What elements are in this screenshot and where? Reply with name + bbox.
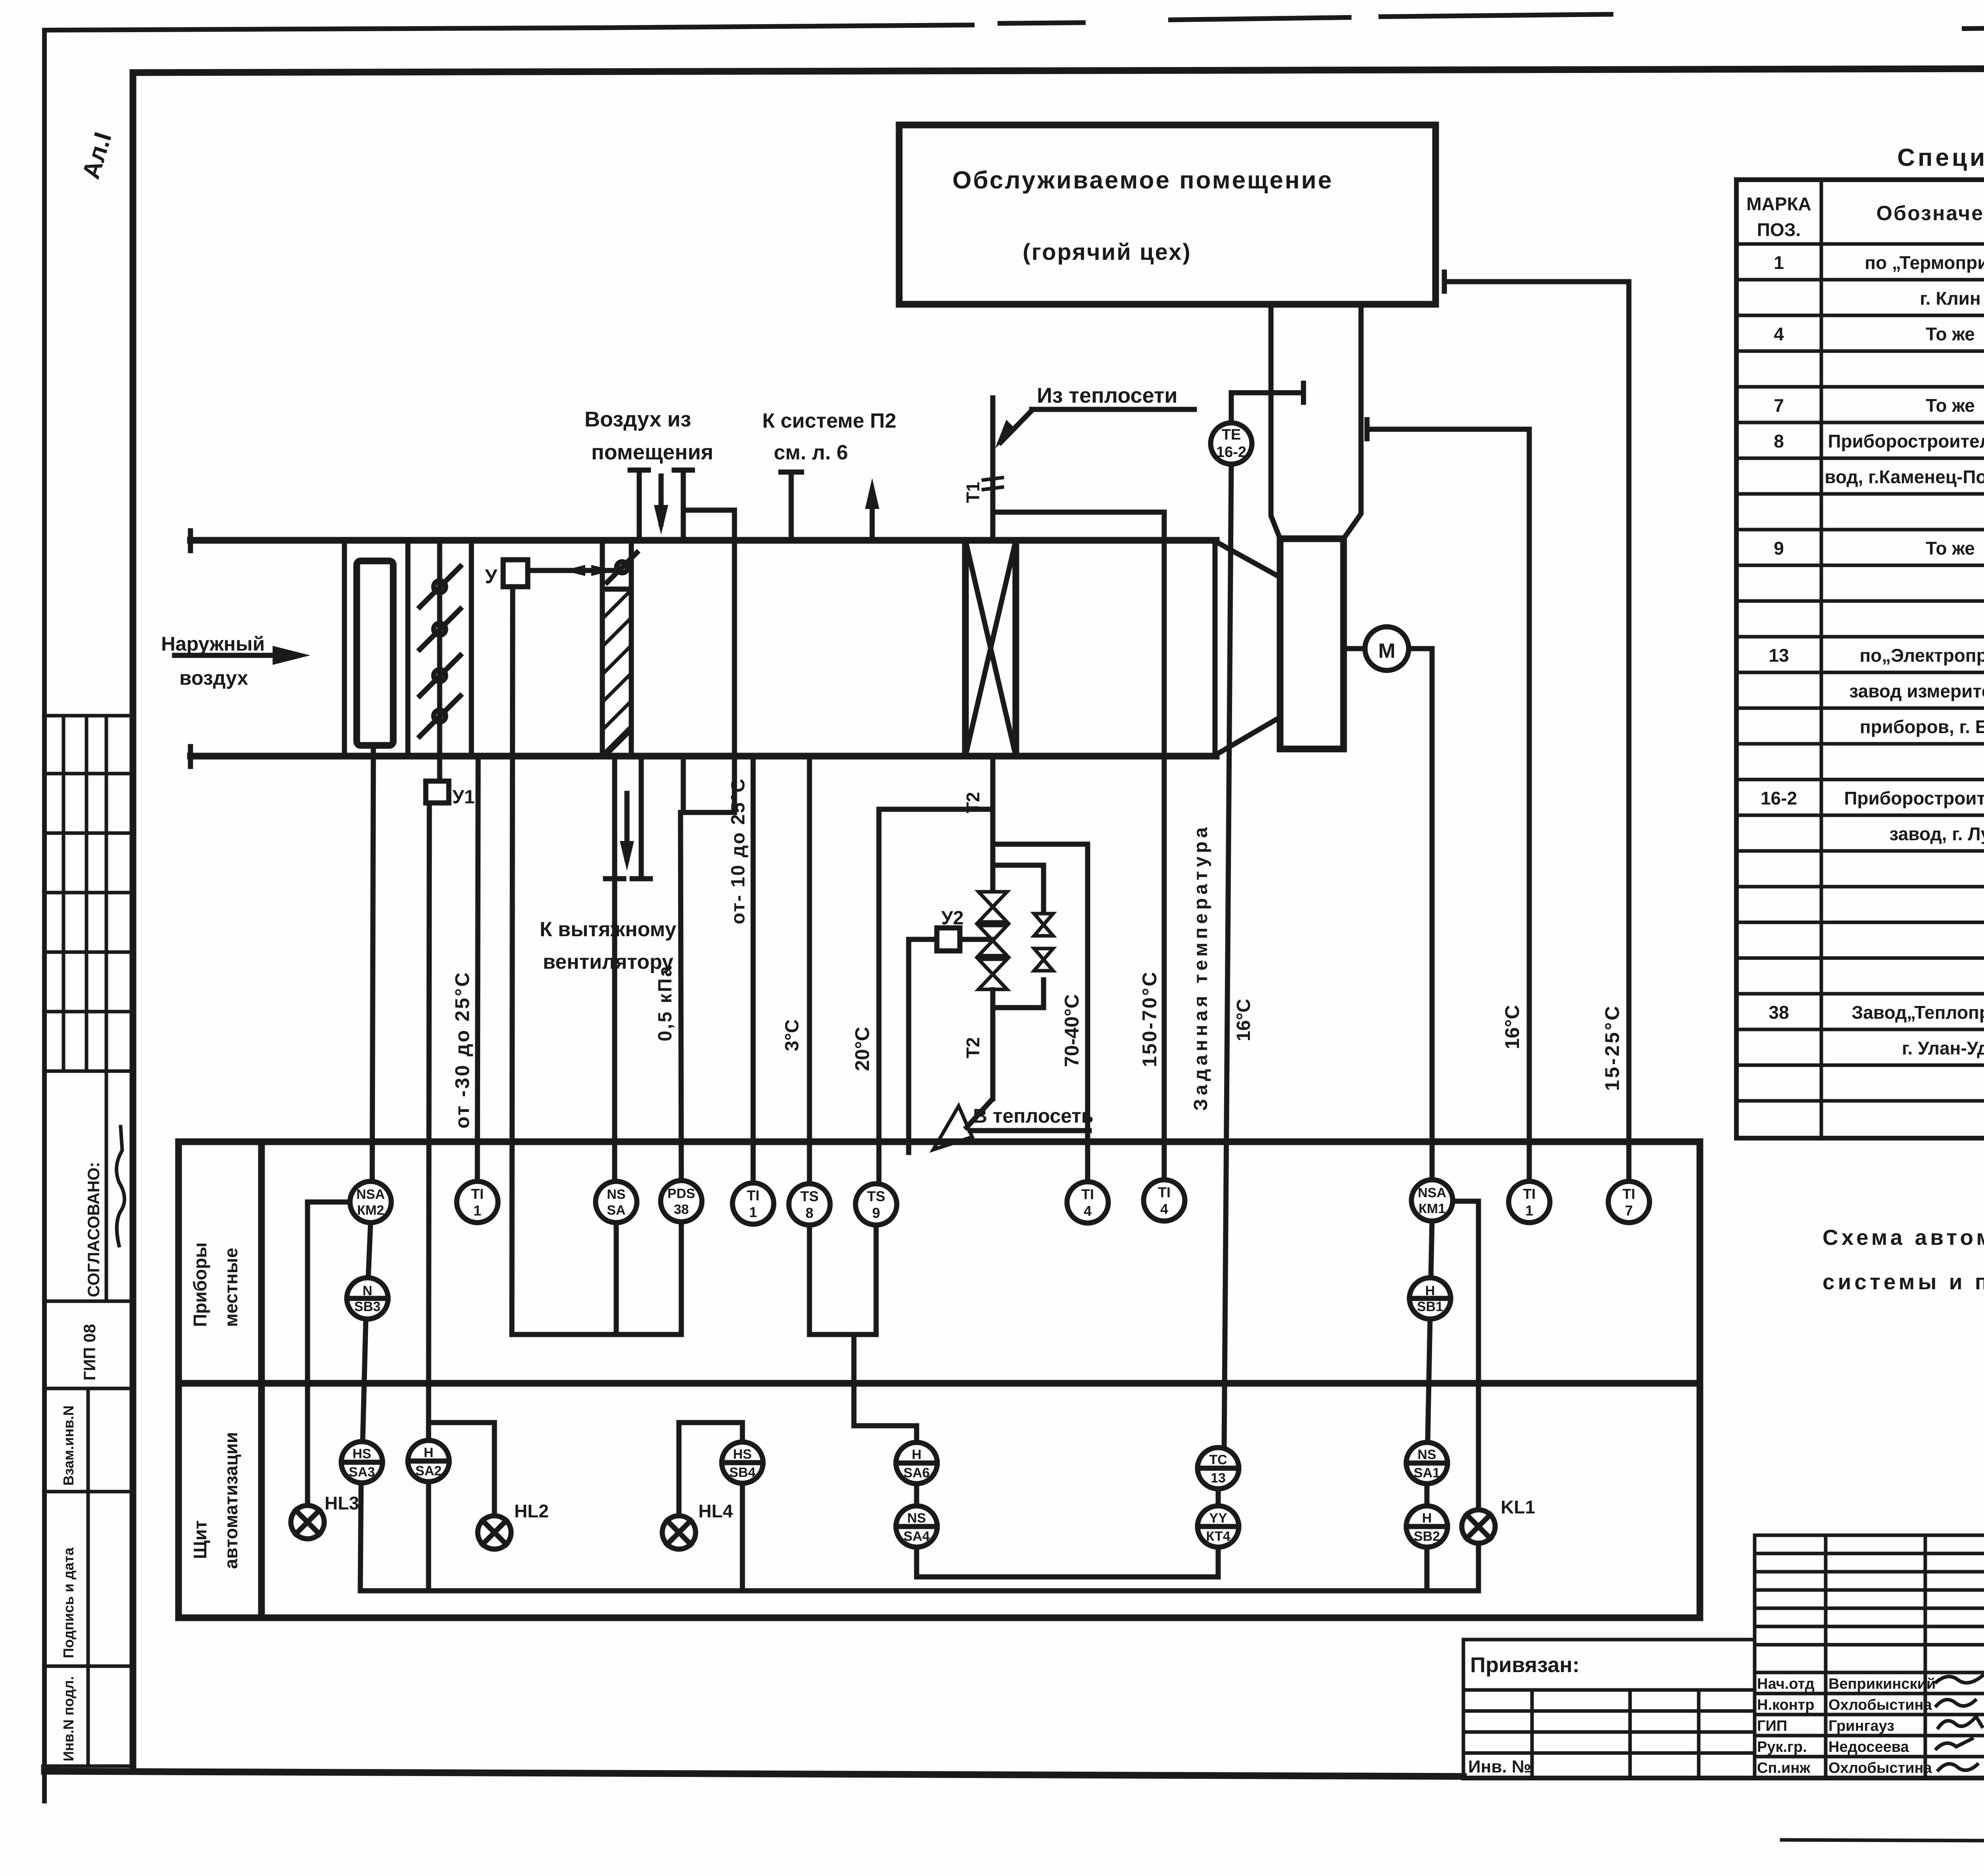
exhaust inlet arrow xyxy=(659,476,664,524)
svg-text:КТ4: КТ4 xyxy=(1206,1529,1230,1544)
svg-text:7: 7 xyxy=(1625,1202,1633,1219)
svg-text:0,5 кПа: 0,5 кПа xyxy=(655,965,676,1041)
heat recovery section boundaries xyxy=(600,540,605,756)
control valve 2 xyxy=(979,926,1007,956)
svg-text:ТЕ: ТЕ xyxy=(1222,426,1241,443)
room thermometer line 15-25C xyxy=(1444,282,1629,1182)
svg-text:SA4: SA4 xyxy=(904,1529,930,1544)
svg-text:К вытяжному: К вытяжному xyxy=(540,918,677,941)
wire TS8 TS9 chain xyxy=(809,1225,876,1335)
instrument NS/SA xyxy=(596,1181,637,1223)
svg-text:38: 38 xyxy=(1769,1002,1789,1023)
supply air thermometer line 16C xyxy=(1367,429,1529,1182)
svg-text:HS: HS xyxy=(352,1446,371,1461)
instrument TS/8 xyxy=(789,1184,830,1225)
svg-text:Обозначение: Обозначение xyxy=(1876,202,1984,225)
duct end wall xyxy=(1213,540,1218,756)
fan discharge transition left xyxy=(1271,304,1280,539)
svg-text:Приборостроительный за-: Приборостроительный за- xyxy=(1828,431,1984,451)
svg-text:TI: TI xyxy=(747,1187,759,1204)
svg-text:YY: YY xyxy=(1209,1511,1227,1526)
svg-text:TS: TS xyxy=(867,1188,885,1204)
control valve 1 xyxy=(979,892,1007,922)
lamp HL4 xyxy=(662,1516,696,1549)
svg-text:HL4: HL4 xyxy=(698,1501,733,1521)
valve loop left branch to TS9 xyxy=(879,809,993,1183)
svg-text:ПОЗ.: ПОЗ. xyxy=(1757,219,1801,240)
svg-text:К системе П2: К системе П2 xyxy=(762,409,896,432)
svg-text:вентилятору: вентилятору xyxy=(543,950,673,974)
svg-text:завод, г. Луцк: завод, г. Луцк xyxy=(1889,824,1984,844)
svg-text:1: 1 xyxy=(749,1204,757,1220)
instrument NSA/KM1 xyxy=(1411,1180,1453,1221)
arrow to pipe xyxy=(1001,411,1032,442)
svg-text:воздух: воздух xyxy=(179,667,248,689)
TE signal line down xyxy=(1224,464,1231,1448)
inner frame left xyxy=(130,73,136,1771)
wire N/SB3 to HS/SA3 xyxy=(363,1319,366,1442)
signatures squiggles xyxy=(1936,1672,1984,1770)
fan inlet cone bottom xyxy=(1216,717,1280,755)
svg-text:г. Клин: г. Клин xyxy=(1920,288,1980,309)
svg-text:150-70°C: 150-70°C xyxy=(1138,970,1161,1067)
svg-text:МАРКА: МАРКА xyxy=(1746,194,1811,214)
svg-text:Наружный: Наружный xyxy=(161,633,265,655)
spec table grid xyxy=(1736,180,1984,1138)
bypass valve 1 xyxy=(1034,914,1053,936)
panel instrument NS/SA1 xyxy=(1406,1442,1448,1484)
svg-text:У1: У1 xyxy=(452,787,475,808)
svg-text:КМ1: КМ1 xyxy=(1419,1201,1446,1216)
svg-text:SA: SA xyxy=(607,1203,625,1218)
lamp HL2 xyxy=(478,1516,511,1549)
svg-text:16°C: 16°C xyxy=(1501,1005,1523,1049)
svg-text:г. Улан-Удэ: г. Улан-Удэ xyxy=(1902,1038,1984,1058)
wire NSA/KM1 chain xyxy=(1431,1219,1432,1279)
П2 branch stub xyxy=(789,472,794,540)
left strip signature xyxy=(117,1127,125,1246)
filter signal drop xyxy=(372,745,373,1182)
filter cassette xyxy=(357,561,393,745)
damper drop to У1 xyxy=(437,756,442,781)
fan inlet cone top xyxy=(1216,542,1280,577)
svg-text:Воздух из: Воздух из xyxy=(584,407,691,431)
svg-text:1: 1 xyxy=(1525,1202,1533,1219)
TS8 line xyxy=(807,756,812,1185)
svg-text:Щит: Щит xyxy=(190,1520,210,1559)
outside air arrow xyxy=(175,653,286,658)
instrument PDS/38 xyxy=(661,1181,702,1222)
svg-text:Рук.гр.: Рук.гр. xyxy=(1757,1739,1807,1755)
wire У1 to H/SA2 xyxy=(429,803,429,1440)
В теплосеть arrow xyxy=(967,1101,990,1127)
svg-text:13: 13 xyxy=(1769,645,1789,666)
svg-text:У2: У2 xyxy=(941,908,964,929)
svg-text:8: 8 xyxy=(806,1205,813,1221)
branch to TI4 return xyxy=(993,844,1088,1182)
wire NSA/KM2 to N/SB3 xyxy=(368,1222,371,1278)
svg-text:Приборы: Приборы xyxy=(190,1242,210,1327)
svg-text:То же: То же xyxy=(1926,324,1975,344)
svg-text:13: 13 xyxy=(1211,1471,1226,1486)
svg-text:Ал.I: Ал.I xyxy=(77,129,117,182)
wire TS9 drop xyxy=(874,1225,879,1335)
svg-text:NSA: NSA xyxy=(1418,1185,1446,1200)
bypass valve 2 xyxy=(1034,949,1053,971)
wire H/SA6 to NS/SA4 xyxy=(914,1484,919,1507)
svg-text:Инв. №: Инв. № xyxy=(1468,1757,1531,1776)
svg-text:СОГЛАСОВАНО:: СОГЛАСОВАНО: xyxy=(84,1162,103,1297)
svg-text:Схема автоматизации составлен: Схема автоматизации составлена для одной… xyxy=(1823,1225,1984,1250)
svg-text:Из теплосети: Из теплосети xyxy=(1037,384,1178,407)
motor wires xyxy=(1344,646,1365,651)
svg-text:SB1: SB1 xyxy=(1417,1299,1443,1314)
svg-text:по „Термоприбор".: по „Термоприбор". xyxy=(1865,252,1984,273)
svg-text:Охлобыстина: Охлобыстина xyxy=(1828,1697,1932,1713)
svg-text:В теплосеть: В теплосеть xyxy=(973,1105,1094,1127)
svg-text:Нач.отд: Нач.отд xyxy=(1757,1676,1815,1692)
svg-text:8: 8 xyxy=(1774,431,1784,451)
svg-text:38: 38 xyxy=(674,1202,689,1217)
У signal line down xyxy=(512,587,513,1335)
TE room probe line xyxy=(1231,393,1303,423)
svg-text:7: 7 xyxy=(1774,395,1784,416)
instrument H/SB1 xyxy=(1409,1278,1451,1319)
heat recovery hatched block xyxy=(602,590,631,755)
actuator У box xyxy=(503,560,528,587)
actuator У1 box xyxy=(426,781,449,803)
svg-text:Т1: Т1 xyxy=(963,482,983,503)
svg-text:20°C: 20°C xyxy=(851,1027,873,1071)
svg-text:М: М xyxy=(1378,639,1395,662)
wire HS/SA3 to bus xyxy=(360,1483,361,1591)
svg-text:TI: TI xyxy=(1523,1186,1536,1202)
svg-text:Приборостроительный: Приборостроительный xyxy=(1844,788,1984,808)
wire NS/SA4 loop to YY/KT4 xyxy=(917,1546,1218,1577)
svg-text:1: 1 xyxy=(473,1202,481,1219)
svg-text:Завод„Теплоприбор",: Завод„Теплоприбор", xyxy=(1852,1002,1984,1023)
wire TC13 to YY/KT4 xyxy=(1216,1488,1221,1507)
supply duct bottom line xyxy=(190,753,1216,760)
frame bottom left segment xyxy=(44,1771,1463,1776)
actuator У2 box xyxy=(937,928,960,951)
svg-text:16°C: 16°C xyxy=(1233,999,1254,1041)
svg-text:по„Электроприбор": по„Электроприбор" xyxy=(1860,645,1984,666)
room box Обслуживаемое помещение xyxy=(899,125,1436,304)
motor M circle xyxy=(1365,627,1409,670)
svg-text:Н: Н xyxy=(1425,1283,1435,1298)
outer left border xyxy=(42,30,47,1801)
paper edge line xyxy=(1782,1840,1984,1843)
svg-text:4: 4 xyxy=(1160,1201,1168,1217)
svg-text:(горячий цех): (горячий цех) xyxy=(1023,239,1191,265)
left strip bottom xyxy=(43,1765,133,1768)
svg-text:автоматизации: автоматизации xyxy=(221,1432,241,1569)
svg-text:ТС: ТС xyxy=(1209,1452,1227,1467)
exhaust outlet stubs xyxy=(612,756,617,1180)
svg-text:SB3: SB3 xyxy=(354,1299,381,1314)
instrument TI/1 after fan xyxy=(1509,1181,1550,1223)
svg-text:9: 9 xyxy=(872,1205,880,1221)
svg-text:Сп.инж: Сп.инж xyxy=(1757,1760,1811,1776)
instrument TS/9 xyxy=(856,1184,897,1225)
left strip cells xyxy=(44,716,133,1766)
TABLE xyxy=(1736,144,1984,1294)
svg-text:TI: TI xyxy=(1081,1186,1094,1202)
svg-text:N: N xyxy=(363,1283,373,1298)
recirculation damper blade xyxy=(607,553,637,582)
svg-text:от -30 до 25°C: от -30 до 25°C xyxy=(451,971,473,1129)
supply duct top line xyxy=(190,537,1216,544)
svg-text:NSA: NSA xyxy=(356,1187,385,1202)
outer top border line xyxy=(44,25,972,30)
svg-text:ГИП: ГИП xyxy=(1757,1718,1787,1734)
inner frame top xyxy=(133,67,1984,73)
instrument TI/1 supply xyxy=(732,1183,774,1224)
svg-text:HS: HS xyxy=(733,1447,752,1462)
svg-text:вод, г.Каменец-Подольский: вод, г.Каменец-Подольский xyxy=(1824,467,1984,487)
svg-text:4: 4 xyxy=(1774,324,1784,344)
svg-text:4: 4 xyxy=(1084,1203,1092,1219)
svg-text:HL2: HL2 xyxy=(514,1501,549,1521)
svg-text:Инв.N подл.: Инв.N подл. xyxy=(60,1676,77,1761)
svg-text:Обслуживаемое помещение: Обслуживаемое помещение xyxy=(952,167,1333,194)
svg-text:Н: Н xyxy=(912,1447,922,1462)
svg-text:Н: Н xyxy=(1422,1511,1432,1526)
Привязан box xyxy=(1463,1640,1755,1778)
PDS38 line xyxy=(681,812,681,1181)
panel label column divider xyxy=(258,1142,265,1618)
svg-text:SB2: SB2 xyxy=(1414,1529,1440,1544)
svg-text:см. л. 6: см. л. 6 xyxy=(774,441,848,464)
svg-text:Н: Н xyxy=(424,1445,434,1460)
spec table row texts xyxy=(1761,252,1984,1130)
exhaust casing through unit xyxy=(683,510,734,812)
wire branch to HL2 xyxy=(429,1423,494,1516)
wire H/SA2 to bus xyxy=(426,1482,431,1591)
wire HS/SB4 to HL4 xyxy=(679,1423,742,1516)
panel instrument H/SA2 xyxy=(408,1440,449,1482)
title block signature grid xyxy=(1755,1535,1984,1778)
svg-text:70-40°C: 70-40°C xyxy=(1061,994,1083,1067)
heater coil xyxy=(965,540,1016,756)
svg-text:Спецификация элементов систе: Спецификация элементов системы П1, xyxy=(1897,144,1984,171)
svg-text:Заданная температура: Заданная температура xyxy=(1190,824,1211,1111)
SCHEMA xyxy=(161,125,1629,1448)
svg-text:Грингауз: Грингауз xyxy=(1828,1718,1894,1734)
panel instrument HS/SB4 xyxy=(722,1442,763,1483)
svg-text:Веприкинский: Веприкинский xyxy=(1828,1676,1936,1692)
panel instrument TC/13 xyxy=(1198,1448,1239,1489)
fan discharge transition right xyxy=(1344,304,1361,539)
bypass with valves xyxy=(993,865,1044,912)
svg-text:HL3: HL3 xyxy=(325,1493,359,1513)
svg-text:помещения: помещения xyxy=(591,440,713,464)
svg-text:SA1: SA1 xyxy=(1414,1465,1440,1480)
panel instrument H/SA6 xyxy=(896,1442,937,1484)
svg-text:КМ2: КМ2 xyxy=(357,1203,384,1218)
instrument N/SB3 xyxy=(347,1278,388,1319)
panel instrument NS/SA4 xyxy=(896,1506,937,1547)
svg-text:SA6: SA6 xyxy=(904,1465,930,1480)
П2 branch arrow xyxy=(870,494,875,540)
wire KL1 stub xyxy=(1476,1542,1481,1591)
svg-text:Взам.инв.N: Взам.инв.N xyxy=(60,1406,77,1486)
svg-text:3°C: 3°C xyxy=(782,1019,803,1051)
svg-text:У: У xyxy=(485,565,498,588)
wire HS/SB4 to bus xyxy=(740,1482,745,1591)
exhaust air inlet pair xyxy=(637,470,642,540)
instrument TI/7 room xyxy=(1608,1181,1649,1223)
wire У loop to NS/SA PDS38 xyxy=(512,1332,681,1337)
svg-text:1: 1 xyxy=(1774,252,1784,273)
svg-text:системы и применима для си: системы и применима для системы П1 xyxy=(1823,1269,1984,1294)
panel instrument YY/KT4 xyxy=(1198,1506,1239,1547)
svg-text:9: 9 xyxy=(1774,538,1784,559)
damper with blades xyxy=(437,540,442,756)
instrument TI/1 outdoor xyxy=(457,1181,498,1223)
lamp HL3 xyxy=(291,1505,324,1539)
svg-text:Недосеева: Недосеева xyxy=(1828,1739,1909,1755)
svg-text:То же: То же xyxy=(1926,395,1975,416)
svg-text:TI: TI xyxy=(1158,1184,1171,1200)
pipe Т2 below heater xyxy=(990,756,996,891)
fan casing xyxy=(1280,539,1344,749)
svg-text:местные: местные xyxy=(221,1248,241,1327)
title block bottom xyxy=(1463,1776,1984,1780)
svg-text:Т2: Т2 xyxy=(963,1037,983,1058)
wire NSA/KM1 to KL1 xyxy=(1452,1201,1478,1511)
svg-text:TI: TI xyxy=(1623,1186,1635,1202)
svg-text:SA3: SA3 xyxy=(349,1465,375,1480)
panel row divider xyxy=(179,1380,1700,1387)
svg-text:NS: NS xyxy=(607,1187,625,1202)
PANEL xyxy=(179,803,1700,1618)
spec table header text xyxy=(1746,188,1984,240)
svg-text:ГИП 08: ГИП 08 xyxy=(80,1324,99,1381)
svg-text:16-2: 16-2 xyxy=(1761,788,1797,808)
control valve 3 xyxy=(979,959,1007,989)
svg-text:Охлобыстина: Охлобыстина xyxy=(1828,1760,1932,1776)
TITLE xyxy=(1463,1535,1984,1843)
TI1 supply air line xyxy=(751,756,756,1184)
svg-text:приборов, г. Ереван: приборов, г. Ереван xyxy=(1860,716,1984,737)
panel box xyxy=(179,1142,1700,1618)
svg-text:от- 10 до 25°C: от- 10 до 25°C xyxy=(728,778,749,924)
svg-text:16-2: 16-2 xyxy=(1216,444,1246,461)
panel instrument HS/SA3 xyxy=(341,1442,383,1483)
sensor TE 16-2 xyxy=(1211,423,1252,464)
svg-text:SA2: SA2 xyxy=(415,1463,442,1479)
instrument TI/4 supply water xyxy=(1144,1180,1185,1221)
svg-text:PDS: PDS xyxy=(667,1186,695,1201)
svg-text:Подпись и дата: Подпись и дата xyxy=(60,1547,77,1658)
TI1 outdoor line xyxy=(477,756,478,1182)
svg-text:TI: TI xyxy=(471,1186,484,1202)
svg-text:То же: То же xyxy=(1926,538,1975,559)
svg-text:NS: NS xyxy=(1417,1447,1436,1462)
svg-text:Н.контр: Н.контр xyxy=(1757,1697,1815,1713)
svg-text:TS: TS xyxy=(800,1188,819,1204)
У2 signal line xyxy=(909,939,937,1152)
exhaust outlet arrow xyxy=(625,793,630,859)
svg-text:NS: NS xyxy=(907,1511,926,1526)
instrument TI/4 return water xyxy=(1067,1182,1108,1223)
svg-text:SB4: SB4 xyxy=(729,1465,756,1480)
signature rows text xyxy=(1757,1676,1936,1776)
svg-text:Привязан:: Привязан: xyxy=(1470,1653,1580,1677)
wire NSA/KM2 to HL3 xyxy=(308,1202,350,1505)
У to damper linkage xyxy=(528,568,613,573)
panel bus wire xyxy=(360,1588,1478,1594)
pipe to В теплосеть xyxy=(990,990,996,1099)
panel instrument H/SB2 xyxy=(1406,1506,1448,1547)
svg-text:15-25°C: 15-25°C xyxy=(1601,1004,1623,1091)
outer top border dashes xyxy=(1000,23,1083,23)
AHU section boundaries xyxy=(342,540,347,756)
lamp KL1 xyxy=(1462,1510,1495,1543)
valve stem line xyxy=(960,937,993,942)
instrument NSA/KM2 xyxy=(350,1181,391,1223)
svg-text:KL1: KL1 xyxy=(1501,1497,1535,1517)
hot water branch line xyxy=(993,512,1164,1180)
svg-text:завод измерительных: завод измерительных xyxy=(1849,681,1984,701)
pipe T1 from heat network xyxy=(990,398,996,540)
